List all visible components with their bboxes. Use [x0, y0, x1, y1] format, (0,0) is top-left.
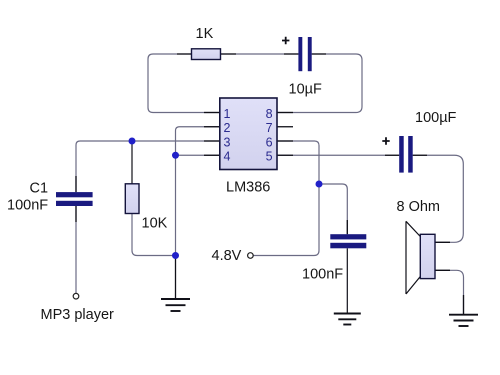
- svg-text:6: 6: [266, 135, 273, 149]
- svg-text:3: 3: [224, 135, 231, 149]
- capacitor C1 100nF input: [56, 192, 93, 206]
- wire supply node to 4.8V terminal: [253, 184, 319, 256]
- capacitor 10uF: [298, 37, 311, 71]
- wire 10K top lead: [131, 141, 133, 184]
- wire 100nF to ground: [346, 248, 348, 313]
- svg-text:C1: C1: [30, 181, 49, 197]
- capacitor lead 100nF top: [346, 220, 348, 234]
- svg-text:MP3 player: MP3 player: [41, 307, 115, 323]
- op-amp U1 LM386: [220, 98, 277, 170]
- wire input node to pin3 and C1: [76, 141, 220, 192]
- svg-text:4.8V: 4.8V: [212, 248, 242, 264]
- capacitor leads 10uF: [284, 53, 326, 55]
- junction node ground rail: [172, 252, 179, 259]
- svg-text:8: 8: [266, 107, 273, 121]
- wire pin6 to supply node: [277, 141, 319, 184]
- svg-text:100µF: 100µF: [415, 110, 457, 126]
- svg-text:2: 2: [224, 121, 231, 135]
- junction node pin4 rail: [172, 152, 179, 159]
- svg-text:100nF: 100nF: [7, 198, 48, 214]
- svg-text:5: 5: [266, 150, 273, 164]
- capacitor leads 100uF: [385, 154, 427, 156]
- wire 10K bottom to ground rail: [132, 214, 176, 256]
- wire pin4: [176, 154, 221, 156]
- speaker LS1 8 Ohm: [406, 221, 435, 294]
- ground right: [449, 295, 478, 326]
- wire feedback loop pin1 to 1K to 10uF to pin8: [148, 54, 362, 113]
- wire ground rail vertical: [175, 155, 177, 255]
- wire pin7 stub: [277, 126, 293, 128]
- ground left: [161, 256, 190, 312]
- terminal MP3 player: [73, 293, 79, 299]
- svg-text:8 Ohm: 8 Ohm: [397, 199, 441, 215]
- ground middle: [334, 314, 361, 325]
- wire C1 to MP3 terminal: [75, 206, 77, 293]
- svg-text:10µF: 10µF: [289, 82, 322, 98]
- resistor R1 1K: [192, 49, 221, 60]
- wire 100uF to speaker top: [413, 155, 464, 242]
- capacitor 100uF output: [399, 136, 413, 173]
- wire speaker bottom to ground: [435, 270, 463, 314]
- wire pin5 to 100uF: [277, 154, 399, 156]
- junction node supply: [316, 181, 323, 188]
- wire supply node to 100nF decoupling: [319, 184, 347, 234]
- svg-text:10K: 10K: [142, 216, 168, 232]
- svg-text:LM386: LM386: [226, 180, 270, 196]
- capacitor 100nF decoupling: [330, 234, 366, 248]
- junction node input: [129, 138, 136, 145]
- svg-text:100nF: 100nF: [302, 267, 343, 283]
- resistor R2 10K: [125, 184, 139, 214]
- plus sign 10uF: [282, 37, 289, 44]
- terminal 4.8V: [248, 253, 254, 259]
- svg-text:1: 1: [224, 107, 231, 121]
- ic pin leads black stubs: [204, 113, 293, 156]
- svg-text:4: 4: [224, 150, 231, 164]
- wire pin2 to ground rail: [176, 127, 221, 156]
- capacitor leads C1: [75, 176, 77, 222]
- speaker leads: [435, 242, 450, 270]
- svg-text:1K: 1K: [196, 26, 214, 42]
- svg-text:7: 7: [266, 121, 273, 135]
- resistor leads 1K: [177, 53, 236, 55]
- plus sign 100uF: [382, 137, 389, 144]
